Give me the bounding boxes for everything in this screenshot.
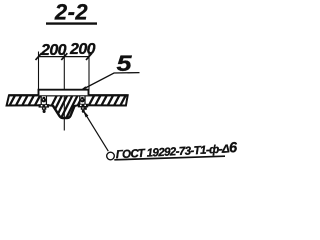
slab and rib hatching	[2, 92, 128, 121]
leader arrowhead item 5	[80, 86, 86, 90]
slab band with rib outline	[7, 95, 128, 118]
extension line left	[38, 52, 40, 90]
svg-text:2-2: 2-2	[54, 0, 89, 25]
bolt B2 through slab	[80, 96, 86, 105]
nut B2	[78, 104, 88, 113]
slab top edge (thick)	[9, 94, 128, 96]
dimension line	[39, 56, 90, 58]
weld shelf underline	[114, 156, 225, 160]
nut B1	[39, 104, 49, 113]
svg-text:200: 200	[69, 41, 96, 58]
centre line	[63, 52, 65, 131]
plate item 5	[39, 90, 89, 96]
bolt B1 through slab	[41, 96, 47, 105]
rib lower outline (thick)	[53, 106, 75, 118]
weld all-around circle	[107, 152, 115, 160]
weld leader line	[84, 111, 109, 151]
weld leader arrowhead	[83, 110, 89, 118]
tick mark left	[36, 53, 42, 60]
extension line right	[88, 52, 90, 90]
title underline	[46, 22, 97, 24]
tick mark middle	[61, 53, 67, 60]
tick mark right	[86, 53, 92, 60]
leader line for item 5	[81, 73, 140, 91]
svg-text:5: 5	[117, 51, 133, 76]
